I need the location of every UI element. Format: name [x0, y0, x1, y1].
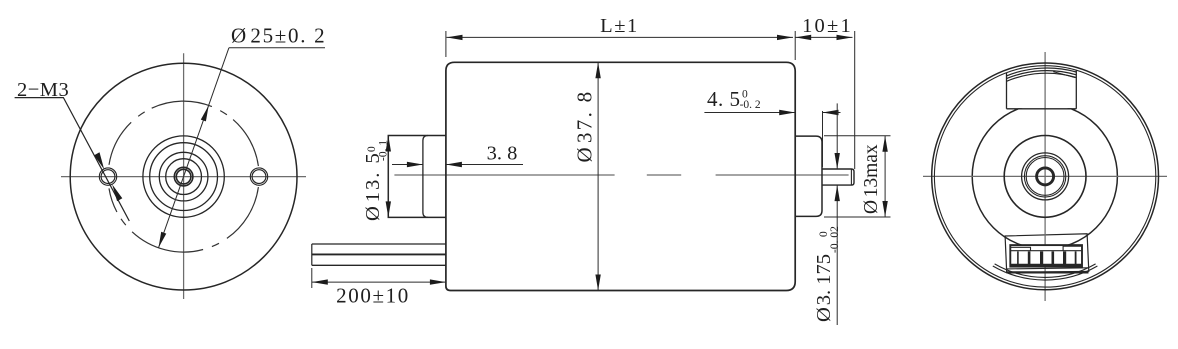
extension lines D13max [824, 135, 891, 137]
arrow D25 bottom [159, 232, 167, 248]
axis centerline [394, 174, 848, 176]
lead wires [312, 243, 446, 245]
pin block [1010, 245, 1082, 267]
crimp arc 1 [995, 264, 1096, 278]
connector housing [1005, 234, 1089, 273]
tab notch mark [1053, 72, 1075, 78]
outer body circle D37.8 [70, 63, 297, 290]
centerline vertical [1044, 52, 1046, 301]
centerline vertical [183, 53, 185, 299]
extension line right [854, 31, 856, 169]
top tab left edge [1006, 73, 1008, 109]
bearing boss circle [1022, 153, 1069, 200]
svg-text:200±10: 200±10 [336, 284, 410, 308]
svg-text:-0. 02: -0. 02 [829, 226, 841, 253]
key notch left [1010, 247, 1030, 250]
bearing ring outer [1024, 156, 1065, 197]
centerline horizontal [61, 176, 306, 178]
key notch right [1063, 246, 1082, 251]
extension wires left [311, 268, 313, 288]
dimension D3.175 0/-0.02 [813, 226, 841, 322]
extension body left lower [445, 268, 447, 288]
svg-text:Ø37. 8: Ø37. 8 [573, 90, 597, 163]
tab arc 1 [1007, 73, 1077, 81]
svg-text:Ø25±0. 2: Ø25±0. 2 [231, 24, 326, 48]
centerline horizontal [923, 175, 1167, 177]
svg-text:4. 5: 4. 5 [707, 87, 741, 111]
rotor circle [1004, 136, 1086, 218]
crimp arc 2 [993, 266, 1098, 280]
dimension D13.5 0/-0.1 [362, 140, 390, 221]
mounting hole left M3 [99, 168, 116, 185]
arrow D25 top [201, 105, 209, 121]
wire end cap [311, 244, 313, 265]
top tab bottom [1007, 108, 1077, 110]
boss circle D13.5 [143, 136, 224, 217]
svg-text:0: 0 [366, 146, 378, 152]
dimension D13max [861, 144, 882, 214]
svg-text:Ø13max: Ø13max [861, 144, 882, 214]
svg-text:Ø3. 175: Ø3. 175 [813, 254, 835, 322]
bolt circle D25 (centerline style) [109, 101, 258, 252]
connector seat line [1007, 268, 1089, 269]
inner rim circle [934, 66, 1155, 287]
outer circle [932, 63, 1159, 290]
svg-text:-0. 2: -0. 2 [740, 99, 761, 111]
arrow to M3 hole [94, 152, 104, 169]
boss step line [423, 136, 428, 218]
svg-text:L±1: L±1 [600, 15, 639, 37]
stator lamination circle [972, 104, 1117, 249]
top tab right edge [1075, 70, 1077, 109]
arrow from below M3 hole [112, 184, 122, 201]
rear housing [795, 136, 822, 216]
shaft ring inner [176, 169, 191, 184]
bearing ring inner [1026, 158, 1064, 196]
mounting hole right M3 [250, 168, 267, 185]
extension line left [445, 31, 447, 57]
bearing circle D6 [166, 159, 202, 195]
shaft chamfer line [850, 169, 852, 185]
shaft end bold ring [1037, 168, 1054, 185]
tab arc 3 [1007, 68, 1077, 76]
front boss D13.5 [388, 136, 446, 218]
svg-text:10±1: 10±1 [802, 15, 853, 37]
extension shaft shoulder [822, 111, 824, 167]
shaft ring outer [174, 167, 193, 186]
tab mask [1006, 66, 1077, 108]
rear shaft [822, 169, 854, 185]
circle D8 [159, 152, 208, 201]
leader 2-M3 [15, 98, 130, 221]
motor body [446, 62, 795, 290]
svg-text:3. 8: 3. 8 [487, 143, 518, 165]
extension line mid [794, 31, 796, 60]
pin block top line [1010, 250, 1082, 252]
dimension D37.8 [573, 90, 597, 163]
circle D11.3 [150, 143, 218, 211]
leader D25 underline [229, 47, 325, 49]
leader D25 diagonal [159, 48, 229, 248]
tab arc 2 [1007, 71, 1077, 79]
pin dividers [1007, 251, 1089, 272]
